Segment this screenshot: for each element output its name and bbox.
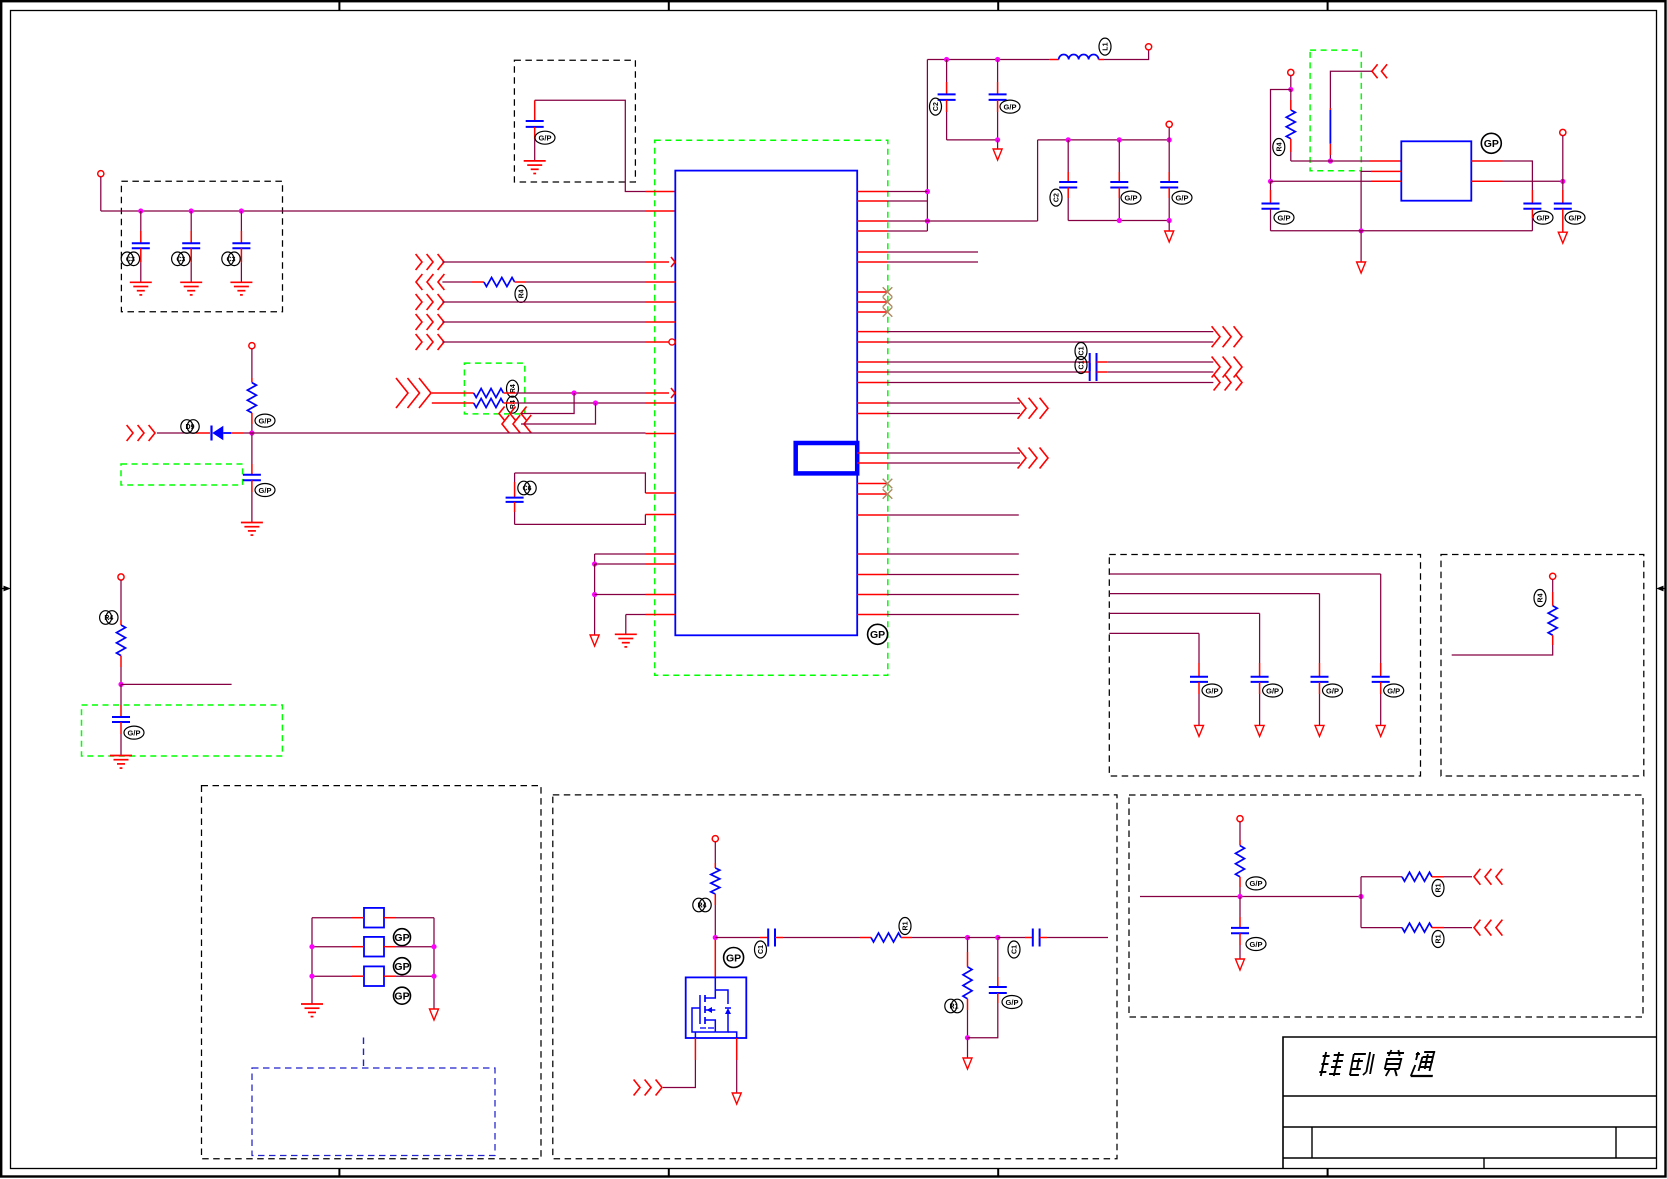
capacitor C3	[232, 243, 250, 248]
node N6	[925, 218, 930, 223]
wire C4 net	[535, 100, 646, 191]
wire J6b	[503, 392, 645, 394]
label C3	[222, 252, 240, 266]
pin stub R12y	[857, 361, 887, 363]
label C11 G/P	[1172, 191, 1192, 204]
wire P5 drop	[1168, 127, 1170, 139]
svg-text:C1: C1	[758, 945, 765, 954]
wire L594	[595, 594, 646, 596]
pin stub R16y	[857, 413, 887, 415]
nc X5	[883, 489, 893, 499]
capacitor C11 lead top	[1168, 140, 1170, 182]
label C20 G/P	[1263, 684, 1283, 697]
label C4 G/P	[535, 131, 555, 144]
wire N14 drop	[1168, 221, 1170, 232]
label Y1 GP	[1481, 133, 1501, 153]
pin stub L493	[645, 492, 675, 494]
wire C17 top	[515, 473, 646, 493]
svg-text:G/P: G/P	[1176, 193, 1189, 202]
pin stub R6y	[857, 261, 887, 263]
power terminal P6	[1288, 69, 1294, 75]
svg-text:GP: GP	[394, 991, 409, 1003]
capacitor C12 lead top	[1270, 181, 1272, 203]
connector J12 >>>	[1212, 326, 1242, 347]
group box cap bank	[1109, 555, 1420, 777]
label JP2 GP	[394, 958, 411, 975]
wire L1 to P4	[1104, 50, 1149, 60]
capacitor C21	[1190, 677, 1208, 682]
wire R362b	[1097, 361, 1214, 363]
connector J19 >>>	[1018, 448, 1048, 469]
capacitor C10	[1110, 182, 1128, 188]
wire C22 to R10	[775, 937, 871, 939]
pin stub R5y	[857, 251, 887, 253]
border zone tick top 3	[997, 1, 999, 10]
group box B (top-center cap)	[514, 60, 635, 182]
connector J1 >>>	[416, 254, 444, 270]
wire R201	[887, 200, 927, 202]
svg-text:C3: C3	[227, 256, 236, 263]
svg-text:G/P: G/P	[1206, 686, 1219, 695]
power terminal P5	[1166, 121, 1172, 127]
capacitor C18	[1372, 677, 1390, 682]
label C9	[1050, 189, 1062, 206]
ground G1	[130, 282, 152, 295]
capacitor C8	[989, 94, 1007, 100]
wire R6 bottom	[120, 656, 122, 685]
node N8	[995, 57, 1000, 62]
node N9	[995, 137, 1000, 142]
pin stub R4y	[857, 230, 887, 232]
connector J5 >>>	[416, 334, 444, 350]
wire R614	[887, 614, 1019, 616]
jumper JP2 lead right	[384, 946, 434, 948]
nc X3	[883, 307, 893, 317]
capacitor C3 lead bottom	[240, 248, 242, 282]
label C10 G/P	[1121, 191, 1141, 204]
capacitor C9 lead top	[1067, 140, 1069, 182]
wire R11 bottom	[967, 999, 969, 1038]
pin stub R17y	[857, 452, 887, 454]
node N3	[249, 430, 254, 435]
label C1	[121, 252, 139, 266]
group box diode cap (green)	[121, 464, 243, 485]
gnd arrow bank20	[1255, 725, 1264, 736]
node N7	[944, 57, 949, 62]
wire R221	[887, 220, 927, 222]
wire R515	[887, 514, 1019, 516]
capacitor C21 lead bottom	[1198, 682, 1200, 726]
label C16	[1075, 357, 1087, 374]
svg-text:R4: R4	[698, 903, 707, 910]
capacitor C2 lead top	[190, 211, 192, 243]
resistor R5	[247, 383, 256, 413]
wire R403	[887, 402, 1020, 404]
label R7	[1273, 139, 1285, 156]
label C14 G/P	[1565, 211, 1585, 224]
label Cb big	[724, 948, 744, 968]
wire J2b	[515, 281, 646, 283]
node N2	[593, 400, 598, 405]
label R6	[100, 611, 118, 625]
label JP1 GP	[394, 929, 411, 946]
wire P7 drop	[1562, 136, 1564, 182]
pin stub IC pin2	[646, 210, 676, 212]
wire J10	[157, 432, 210, 434]
label D1	[181, 420, 199, 434]
title block row line 2	[1283, 1126, 1657, 1128]
border zone tick bottom 4	[1327, 1169, 1329, 1177]
wire P9 drop	[714, 842, 716, 868]
svg-text:G/P: G/P	[128, 728, 141, 737]
group box resistors (green)	[464, 363, 524, 414]
capacitor C17 lead top	[514, 473, 516, 498]
wire J2a	[442, 281, 484, 283]
capacitor C22 series	[768, 929, 775, 947]
label C15	[1075, 343, 1087, 360]
wire P3 drop	[120, 580, 122, 625]
wire top rail	[927, 59, 1049, 61]
node N21	[592, 592, 597, 597]
wire pin3 net	[927, 220, 1037, 222]
gnd arrow bank21	[1195, 725, 1204, 736]
group box crystal (green)	[1310, 50, 1361, 171]
wire R413	[887, 413, 1020, 415]
jumper JP1 lead right	[384, 917, 434, 919]
label R3	[507, 396, 519, 413]
wire R554	[887, 553, 1019, 555]
wire R574	[887, 574, 1019, 576]
IC U1 body	[675, 171, 857, 636]
capacitor C17 lead bottom	[514, 502, 516, 525]
inductor L1 lead left	[1050, 59, 1059, 61]
wire R14 left	[1361, 927, 1402, 929]
wire R362a	[887, 361, 1090, 363]
gnd arrow A9	[1236, 959, 1245, 970]
wire net bottom right	[1140, 896, 1361, 898]
connector J17 >>>	[1018, 398, 1048, 419]
resistor R9	[711, 868, 720, 894]
wire R252	[887, 251, 978, 253]
jumper JP3 body	[364, 966, 384, 986]
wire C6 bottom	[120, 722, 122, 756]
wire R594	[887, 594, 1019, 596]
label C23 G/P	[1002, 996, 1022, 1009]
connector J21 >>>	[634, 1080, 662, 1096]
wire R14 right	[1432, 927, 1472, 929]
label C5 G/P	[255, 484, 275, 497]
wire J7a	[432, 402, 474, 404]
wire xtal pin1	[1291, 160, 1402, 162]
wire J9 loopback	[521, 403, 596, 424]
capacitor C14 lead top	[1562, 181, 1564, 203]
border zone tick top 1	[338, 1, 340, 10]
label C25 G/P	[1246, 938, 1266, 951]
connector J11 <<	[1372, 64, 1387, 78]
svg-text:R4: R4	[510, 384, 517, 393]
wire rail2	[1038, 139, 1170, 141]
svg-text:R4: R4	[1538, 593, 1545, 602]
resistor R6	[117, 625, 126, 656]
capacitor C2	[182, 243, 200, 248]
node N20	[592, 561, 597, 566]
capacitor C4	[526, 121, 544, 127]
wire R191	[887, 191, 927, 193]
title block row line 3	[1283, 1157, 1657, 1159]
jumper JP1 body	[364, 908, 384, 928]
label L1	[1099, 38, 1111, 55]
label C13 G/P	[1533, 211, 1553, 224]
group box bottom right	[1129, 795, 1643, 1017]
svg-text:G/P: G/P	[539, 134, 552, 143]
group box main IC (green)	[655, 140, 888, 675]
wire N26 right	[715, 937, 768, 939]
resistor R8	[1548, 606, 1557, 635]
label C2	[172, 252, 190, 266]
pin stub pin10	[646, 433, 676, 435]
svg-text:R1: R1	[903, 921, 910, 930]
capacitor C4 lead top	[534, 100, 536, 121]
wire D1 to node	[231, 432, 252, 434]
wire N4 right	[121, 683, 232, 685]
wire N3 down	[251, 433, 253, 475]
nc X2	[883, 297, 893, 307]
border mid arrow left	[1, 586, 11, 592]
node N10	[1066, 137, 1071, 142]
wire jumper bus right	[433, 918, 435, 1009]
wire P10 drop	[1239, 822, 1241, 846]
capacitor C23 lead bottom	[968, 993, 998, 1038]
node N28	[995, 935, 1000, 940]
pin stub R24y	[857, 594, 887, 596]
svg-text:G/P: G/P	[1125, 193, 1138, 202]
svg-text:G/P: G/P	[1250, 940, 1263, 949]
capacitor C9 lead bottom	[1067, 188, 1069, 221]
resistor R7	[1286, 110, 1295, 139]
wire R453	[887, 452, 1020, 454]
resistor R3	[474, 399, 504, 408]
label R2	[507, 380, 519, 397]
node rail-C3	[239, 208, 244, 213]
svg-text:G/P: G/P	[1387, 686, 1400, 695]
node N5	[925, 189, 930, 194]
svg-text:G/P: G/P	[1569, 213, 1582, 222]
ground G6	[110, 756, 132, 769]
wire R5 bottom	[251, 413, 253, 433]
connector J9 <<<	[502, 415, 531, 433]
connector J20 >>>	[0, 0, 1, 1]
border zone tick top 2	[668, 1, 670, 10]
label C6 G/P	[124, 726, 144, 739]
wire N29 drop	[967, 1038, 969, 1058]
IC U1 tab	[796, 443, 858, 473]
node N12	[1167, 137, 1172, 142]
capacitor C1	[132, 243, 150, 248]
border mid arrow right	[1656, 586, 1665, 592]
title block outline	[1283, 1037, 1657, 1169]
wire rail2 gnd bus	[1068, 220, 1169, 222]
wire J8 loopback	[521, 393, 574, 414]
power terminal P3	[118, 574, 124, 580]
wire L614	[626, 615, 646, 635]
pin stub R13y	[857, 371, 887, 373]
group box transistor	[553, 795, 1117, 1159]
wire C5 bottom	[251, 480, 253, 522]
capacitor C7 lead top	[946, 60, 948, 95]
wire blue segment	[1329, 110, 1331, 144]
resistor R2	[474, 389, 504, 398]
pin stub R18y	[857, 462, 887, 464]
wire R231	[887, 230, 927, 232]
wire C17 bottom	[515, 515, 646, 525]
pin stub R8y nc	[857, 301, 887, 303]
border zone tick bottom 1	[338, 1169, 340, 1177]
svg-text:G/P: G/P	[1278, 213, 1291, 222]
power terminal P2	[249, 343, 255, 349]
node N19	[1560, 179, 1565, 184]
svg-text:C6: C6	[523, 486, 532, 493]
wire R9 bottom	[714, 894, 716, 938]
pin stub L514	[645, 514, 675, 516]
title block divider left	[1311, 1127, 1313, 1158]
pin stub R25y	[857, 614, 887, 616]
wire R11 top	[967, 938, 969, 967]
connector J18 >>>	[0, 0, 1, 1]
capacitor C25 lead top	[1239, 897, 1241, 928]
pin stub R15y	[857, 402, 887, 404]
svg-text:G/P: G/P	[1537, 213, 1550, 222]
blue dashed stub	[363, 1038, 365, 1069]
wire xtal pin4	[1471, 161, 1532, 204]
capacitor C1 lead bottom	[140, 248, 142, 282]
power terminal P7	[1560, 129, 1566, 135]
svg-text:G/P: G/P	[259, 416, 272, 425]
connector J13 >>>	[0, 0, 1, 1]
pin stub pin5	[646, 301, 676, 303]
title block bottom divider	[1483, 1158, 1485, 1169]
svg-text:D9: D9	[186, 424, 195, 431]
pin stub L564	[646, 563, 676, 565]
pin stub R22y	[857, 553, 887, 555]
ground G4	[524, 161, 546, 174]
svg-text:G/P: G/P	[1266, 686, 1279, 695]
wire Q1 source out	[736, 1038, 738, 1093]
wire P6 drop	[1290, 76, 1292, 90]
label R1	[515, 285, 527, 302]
svg-text:C3: C3	[176, 256, 185, 263]
pin stub L614	[646, 614, 676, 616]
wire R331	[887, 331, 1213, 333]
capacitor C19	[1311, 677, 1329, 682]
gnd arrow A2	[1165, 231, 1174, 242]
pin stub R11y	[857, 341, 887, 343]
wire vert bus x927	[926, 60, 928, 232]
label C7	[930, 98, 942, 115]
label C24	[1008, 941, 1020, 958]
capacitor C18 lead bottom	[1380, 682, 1382, 726]
svg-text:C1: C1	[1079, 346, 1086, 355]
resistor R12	[1236, 846, 1245, 877]
wire N16 left	[1271, 90, 1291, 182]
svg-text:GP: GP	[870, 629, 885, 641]
pin stub pin3 with arrow	[646, 257, 676, 267]
power terminal P9	[712, 836, 718, 842]
wire J6a	[432, 392, 474, 394]
node N22	[309, 944, 314, 949]
label C12 G/P	[1274, 211, 1294, 224]
resistor R13	[1402, 872, 1432, 881]
capacitor C25	[1231, 928, 1249, 933]
svg-text:C2: C2	[933, 102, 940, 111]
jumper JP2 lead left	[312, 946, 364, 948]
wire xtal gnd bus	[1271, 230, 1533, 232]
pin stub pin7 inverted	[646, 339, 676, 345]
nc X1	[883, 287, 893, 297]
wire N28 to C24	[998, 937, 1033, 939]
svg-text:GP: GP	[394, 932, 409, 944]
wire N27 to N28	[968, 937, 998, 939]
pin stub R23y	[857, 574, 887, 576]
label C22	[755, 941, 767, 958]
gnd arrow A8	[732, 1093, 741, 1104]
gnd arrow A1	[993, 149, 1002, 160]
wire R7 top lead	[1290, 90, 1292, 111]
label R8	[1534, 590, 1546, 607]
connector J3 >>>	[416, 294, 444, 310]
svg-text:G/P: G/P	[1250, 879, 1263, 888]
wire R10 right	[901, 937, 968, 939]
power terminal P1	[98, 171, 104, 177]
node N23	[309, 974, 314, 979]
node N4	[118, 682, 123, 687]
node rail-C2	[189, 208, 194, 213]
border zone tick top 4	[1327, 1, 1329, 10]
pin stub IC pin1	[646, 191, 676, 193]
wire Q1 gate out	[663, 1038, 695, 1088]
wire J1	[442, 261, 645, 263]
ground G5	[241, 523, 263, 536]
svg-text:C1: C1	[1012, 945, 1019, 954]
wire N31 vert	[1360, 877, 1362, 928]
wire bank19	[1109, 594, 1319, 677]
power terminal P10	[1237, 816, 1243, 822]
pin stub L554	[646, 553, 676, 555]
wire R463	[887, 462, 1020, 464]
power terminal P4	[1146, 44, 1152, 50]
wire R342	[887, 341, 1213, 343]
wire L554	[595, 554, 646, 564]
svg-text:C1: C1	[1079, 360, 1086, 369]
label C21 G/P	[1202, 684, 1222, 697]
nc X4	[883, 479, 893, 489]
ground G7	[615, 634, 637, 647]
wire C24 right	[1040, 937, 1108, 939]
wire J4	[442, 321, 645, 323]
capacitor C12	[1262, 204, 1280, 209]
capacitor C11 lead bottom	[1168, 188, 1170, 221]
label R12 G/P	[1246, 877, 1266, 890]
capacitor C4 lead bottom	[534, 127, 536, 161]
resistor R10	[871, 933, 901, 942]
wire R372b	[1097, 371, 1214, 373]
capacitor C7 lead bottom	[946, 100, 948, 140]
pin stub R7y nc	[857, 291, 887, 293]
label U1 GP	[868, 624, 888, 644]
transistor Q1 body	[686, 977, 747, 1038]
capacitor C19 lead bottom	[1319, 682, 1321, 726]
wire R262	[887, 261, 978, 263]
connector J2 <<<	[416, 274, 444, 290]
